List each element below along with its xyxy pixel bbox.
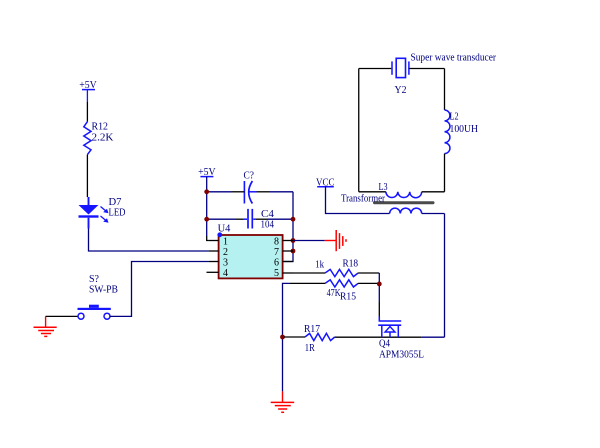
- svg-text:1: 1: [223, 236, 228, 247]
- ground (sideways, right of U4): [325, 230, 346, 251]
- svg-text:R18: R18: [343, 258, 359, 269]
- capacitor C4: [244, 209, 274, 231]
- junction node +5V/C?: [204, 189, 209, 194]
- wire VCC to transformer primary: [326, 187, 390, 214]
- wire transformer secondary right: [422, 191, 445, 193]
- wire R12 to D7: [86, 155, 88, 197]
- pin 5: [283, 272, 293, 274]
- capacitor C?: [244, 171, 257, 204]
- wire R18 to gate junction: [358, 272, 379, 274]
- wire +5V rail down to pin1: [206, 177, 208, 236]
- crystal Y2 (super wave transducer): [392, 53, 497, 97]
- wire ground to switch: [46, 315, 79, 317]
- wire transformer secondary left: [359, 191, 386, 193]
- wire pin5 to R18: [293, 272, 325, 274]
- svg-text:Y2: Y2: [395, 85, 407, 96]
- power +5V (above U4): [198, 167, 216, 178]
- svg-text:4: 4: [223, 268, 228, 279]
- svg-text:C?: C?: [244, 171, 255, 182]
- ground (bottom center): [271, 391, 295, 412]
- pin 4: [207, 271, 219, 273]
- pin 6: [283, 261, 293, 263]
- pin 8: [283, 240, 293, 242]
- wire +5V to R12: [86, 102, 88, 122]
- wire Y2 to L2: [444, 69, 446, 111]
- power VCC: [316, 177, 335, 188]
- svg-text:6: 6: [274, 257, 279, 268]
- wire drain riser: [444, 214, 446, 338]
- pin 3: [209, 261, 219, 263]
- wire D7 to pin2 row: [89, 229, 209, 252]
- wire C4 left bus: [207, 218, 236, 220]
- pin 7: [283, 250, 293, 252]
- svg-text:R15: R15: [340, 291, 356, 302]
- wire C4 right bus: [256, 218, 268, 220]
- svg-text:3: 3: [223, 257, 228, 268]
- wire R15 left down to R17 junction and ground: [290, 282, 325, 284]
- svg-text:Q4: Q4: [379, 339, 390, 350]
- svg-text:2: 2: [223, 247, 228, 258]
- wire Y2 right: [409, 68, 445, 70]
- resistor R15: [325, 280, 358, 303]
- junction node R17: [280, 335, 285, 340]
- svg-text:104: 104: [261, 220, 275, 231]
- svg-text:Super wave transducer: Super wave transducer: [411, 53, 497, 64]
- switch S? SW-PB: [78, 274, 119, 319]
- svg-text:D7: D7: [109, 197, 122, 208]
- svg-text:1R: 1R: [305, 343, 315, 354]
- svg-text:LED: LED: [109, 208, 126, 219]
- wire Y2 left: [359, 68, 392, 70]
- svg-text:R17: R17: [304, 324, 320, 335]
- svg-text:7: 7: [274, 247, 279, 258]
- wire R17 to Q4 source: [335, 336, 422, 338]
- power +5V (left rail): [79, 80, 97, 102]
- junction node pin8: [291, 238, 296, 243]
- junction node pin7: [291, 249, 296, 254]
- wire L2 to transformer: [444, 154, 446, 192]
- svg-text:L2: L2: [450, 112, 459, 123]
- resistor R12: [84, 122, 115, 155]
- svg-text:C4: C4: [261, 209, 274, 220]
- wire C? left bus: [207, 191, 232, 193]
- svg-text:8: 8: [274, 236, 279, 247]
- junction node C4 right: [291, 217, 296, 222]
- wire pin8 to ground: [293, 240, 325, 242]
- op-amp U4 (IC box): [217, 223, 282, 278]
- svg-text:S?: S?: [89, 274, 100, 285]
- inductor L2: [445, 110, 479, 154]
- junction node gate: [377, 282, 382, 287]
- junction node +5V/C4: [204, 217, 209, 222]
- pin 2: [209, 250, 219, 252]
- resistor R17: [284, 324, 335, 354]
- wire Q4 drain to riser: [422, 336, 445, 338]
- ground (left, under switch): [34, 316, 57, 336]
- wire Y2 loop left vertical: [358, 69, 360, 192]
- svg-text:SW-PB: SW-PB: [89, 285, 118, 296]
- wire C? right bus: [257, 191, 271, 193]
- wire R15 right to junction: [358, 282, 379, 284]
- wire switch to pin3 row: [110, 262, 209, 317]
- svg-text:2.2K: 2.2K: [92, 133, 115, 144]
- svg-text:100UH: 100UH: [450, 124, 479, 135]
- svg-text:1k: 1k: [315, 260, 324, 271]
- svg-text:U4: U4: [218, 223, 231, 234]
- svg-text:5: 5: [274, 268, 279, 279]
- resistor R18: [315, 258, 358, 276]
- wire right vertical to pin6: [283, 192, 293, 262]
- wire transformer primary right: [422, 213, 445, 215]
- LED D7: [79, 197, 126, 229]
- transformer L3: [341, 182, 435, 214]
- transistor Q4: [378, 302, 424, 361]
- pin 1: [209, 240, 219, 242]
- svg-text:APM3055L: APM3055L: [379, 350, 424, 361]
- svg-text:R12: R12: [92, 122, 109, 133]
